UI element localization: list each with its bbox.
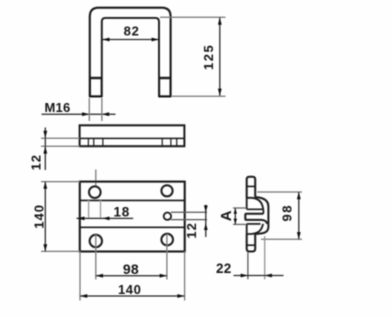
front view lower groove line <box>80 226 185 228</box>
M16 extension lines <box>88 98 90 121</box>
dimension 125 arrows <box>218 18 222 96</box>
U-bolt inner outline <box>102 18 159 97</box>
U-bolt right leg bottom edge <box>159 95 172 97</box>
bracket slot top line <box>247 208 264 210</box>
bracket upper arm inner edge <box>247 198 264 209</box>
svg-text:98: 98 <box>123 261 139 277</box>
hole bottom-right <box>161 234 173 246</box>
bracket lower arm inner edge <box>247 224 263 234</box>
svg-text:140: 140 <box>31 204 46 229</box>
bracket slot bottom line <box>247 223 261 225</box>
svg-text:12: 12 <box>184 222 199 238</box>
small hole middle-right <box>164 213 171 220</box>
side view hole hidden lines <box>88 138 176 146</box>
bracket top tab hole line <box>247 185 256 187</box>
bracket left edge upper segment <box>246 198 248 209</box>
dimension 140 left line <box>44 182 46 252</box>
dimension 98 bottom extension lines <box>95 235 97 280</box>
svg-text:M16: M16 <box>45 100 71 115</box>
bracket tongue outline <box>245 214 267 224</box>
hole column extension line above front view <box>95 170 97 187</box>
front view plate outline <box>80 182 185 252</box>
M16 arrows <box>82 112 109 116</box>
dimension 98 right line <box>298 192 300 239</box>
dimension 18 arrows <box>77 217 109 221</box>
dimension 12 (side view) arrows <box>43 131 47 154</box>
dimension 140 left extension lines <box>41 181 80 183</box>
dimension 12 (hole) leader lines <box>171 211 207 213</box>
dimension 82 arrows <box>102 38 159 42</box>
hole bottom-left <box>90 235 102 247</box>
dimension 18 line <box>77 217 134 219</box>
bracket top tab <box>247 177 256 198</box>
U-bolt left leg bottom edge <box>89 95 102 97</box>
svg-text:A: A <box>218 210 235 221</box>
hole top-right <box>161 185 172 196</box>
svg-text:98: 98 <box>280 204 295 221</box>
U-bolt left leg thread line <box>90 77 102 79</box>
svg-text:140: 140 <box>118 282 142 297</box>
hole top-left <box>89 186 101 198</box>
dimension A extension lines <box>233 207 246 209</box>
dimension 140 left arrows <box>43 182 47 252</box>
bracket left edge lower segment <box>246 224 248 234</box>
extension line top (125 dim) <box>160 16 226 18</box>
dimension 12 (side view) line <box>44 128 46 171</box>
dimension 82 line <box>102 39 159 41</box>
M16 dimension line <box>42 113 116 115</box>
dimension 12 (hole) line <box>205 205 207 237</box>
U-bolt left leg thread box <box>90 78 101 96</box>
bracket outer edge <box>255 197 268 234</box>
slot hidden lines <box>88 200 90 218</box>
dimension 22 line <box>234 275 284 277</box>
dimension 140 bottom line <box>80 295 185 297</box>
dimension 12 (hole) arrows <box>204 205 208 230</box>
bracket bottom tab <box>247 234 256 252</box>
side view plate divider line <box>80 137 185 139</box>
dimension 98 bottom line <box>96 275 167 277</box>
dimension 98 bottom arrows <box>96 274 167 278</box>
dimension 140 bottom extension lines <box>79 251 81 300</box>
bracket slot right joiner <box>262 209 264 214</box>
front view upper groove line <box>80 199 185 201</box>
U-bolt outer outline <box>90 8 171 97</box>
dimension 12 (side view) extension lines <box>41 137 80 139</box>
dimension A arrow line <box>234 208 236 224</box>
svg-text:18: 18 <box>113 204 130 219</box>
dimension 98 right extension lines <box>257 191 302 193</box>
svg-text:22: 22 <box>216 261 232 276</box>
bracket bottom tab hole line <box>247 244 256 246</box>
extension line bottom (125 dim) <box>172 95 226 97</box>
svg-text:125: 125 <box>201 44 216 70</box>
U-bolt right leg thread line <box>159 77 171 79</box>
dimension 140 bottom arrows <box>80 294 185 298</box>
dimension 125 line <box>219 18 221 96</box>
dimension 98 right arrows <box>297 192 301 239</box>
side view plate outline <box>80 125 185 146</box>
dimension 22 arrows <box>241 274 272 278</box>
U-bolt right leg thread box <box>160 78 170 96</box>
dimension 22 extension lines <box>247 252 249 279</box>
svg-text:12: 12 <box>28 154 43 170</box>
svg-text:82: 82 <box>124 24 140 39</box>
dimension A arrows <box>234 208 237 224</box>
